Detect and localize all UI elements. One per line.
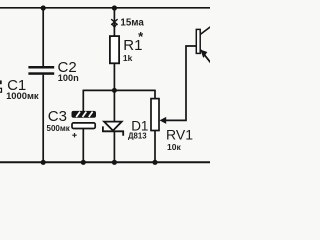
svg-text:RV1: RV1 [166,127,193,143]
capacitor C3 negative plate [72,123,95,129]
svg-text:100n: 100n [58,73,79,83]
potentiometer RV1 wiper arrowhead [160,117,167,124]
capacitor C1 (cut off at left edge, electrolytic plate stubs) [0,80,2,92]
capacitor C3 positive plate (hatched) [72,111,97,118]
resistor R1 [110,36,119,63]
svg-text:10к: 10к [167,142,181,152]
svg-text:1000мк: 1000мк [6,90,39,101]
wire D1 bottom lead [113,131,115,162]
wire R1 bottom lead to D1 [113,63,115,122]
wire bottom ground rail [0,161,210,163]
wire C3 top lead [82,90,84,112]
svg-text:15ма: 15ма [120,17,144,28]
wire C3 bottom lead [82,129,84,163]
transistor Q1 collector lead [200,26,211,34]
capacitor C2 [28,66,54,75]
transistor Q1 base bar [196,29,200,53]
transistor Q1 emitter lead [200,50,211,63]
junction top rail / C2 branch [41,5,46,10]
diode D1 zener triangle [104,122,122,131]
junction bottom rail / D1 branch [112,160,117,165]
wire C2 lower lead [42,75,44,163]
svg-text:500мк: 500мк [47,124,71,133]
junction bottom rail / RV1 branch [152,160,157,165]
wire RV1 top lead [154,90,156,99]
svg-text:C3: C3 [48,108,67,125]
junction mid rail / R1-D1 branch [112,88,117,93]
junction top rail / R1 branch [112,5,117,10]
svg-text:1k: 1k [123,53,133,63]
wire wiper to transistor base [165,46,197,120]
wire R1 top lead [113,8,115,37]
svg-text:*: * [138,29,144,44]
wire RV1 bottom lead [154,130,156,162]
plus sign of C3 [72,133,76,137]
wire C2 upper lead [42,8,44,66]
transistor Q1 emitter arrowhead [200,50,207,58]
junction bottom rail / C3 branch [81,160,86,165]
diode D1 zener cathode bar with hooks [103,126,123,135]
wire top supply rail [0,7,210,9]
svg-text:Д813: Д813 [128,131,147,140]
current measurement break mark (x with arrow) [111,19,117,27]
potentiometer RV1 body [151,99,159,131]
junction bottom rail / C2 branch [41,160,46,165]
wire mid rail [83,89,155,91]
